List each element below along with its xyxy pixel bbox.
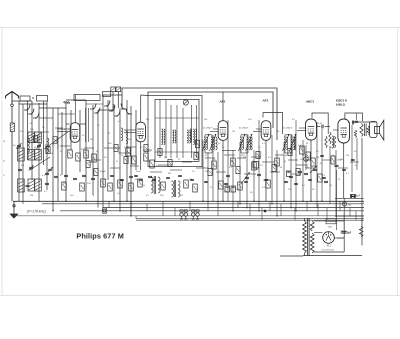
capacitor C43 [152,179,156,180]
svg-text:2k: 2k [306,143,308,145]
wire heater rail 6b [136,219,364,221]
oscillator trimmer box [102,92,110,97]
node junction 25 [52,210,54,212]
label V2 values [124,147,151,187]
resistor R18 [275,158,280,166]
jack J5 [196,210,199,219]
svg-text:41-490pF: 41-490pF [203,127,213,130]
svg-text:8µF: 8µF [356,195,361,198]
wire supply rail 4 [60,210,364,212]
capacitor C42 [134,175,138,176]
capacitor C23 [324,181,328,182]
wire rail link 17 [326,208,328,221]
wire mid section vertical 4 [119,108,121,211]
wire link 10 [224,154,235,156]
wire IF section vertical 8 [246,135,248,208]
capacitor C48 electrolytic [287,171,292,177]
wire IF section vertical 6 [232,150,234,211]
capacitor C10 [129,176,133,177]
resistor R58 [256,152,260,159]
tube V2 ACH1 [136,122,146,142]
resistor R54 [168,160,172,167]
wire output section vertical 5 [329,146,331,204]
resistor R19 [219,181,224,189]
wire stub y118 b [58,113,75,115]
resistor R23 [333,136,335,148]
resistor R25 [300,146,305,154]
wire left section vertical 2 [22,104,24,204]
wire V1 grid pair [57,129,71,132]
wire link 26 [338,167,348,169]
wire trimmer drop 2 [117,92,119,108]
jack J3 [184,210,187,219]
wire left stub a [12,100,32,102]
wire output section vertical 4 [321,129,323,201]
resistor R21 [266,180,271,188]
wire link 12 [251,156,261,158]
capacitor C54 [320,155,324,156]
dial lamp symbol [351,195,356,199]
wire box vertical 3 [170,105,172,158]
output transformer T2 core [365,124,367,137]
resistor R34 [129,183,134,191]
shield box IF1 outer [148,96,202,167]
capacitor C11 [139,179,143,180]
resistor R16 [231,158,236,166]
tube V5 ABC1 [306,119,317,140]
wire output section vertical 1 [302,140,304,201]
wire pair mid [86,108,89,142]
wire link 14 [275,154,284,156]
micro labels row 6 [20,127,131,147]
node main junction [264,210,267,213]
resistor R15 [212,161,217,169]
wire antenna lead [11,107,13,123]
svg-text:50k: 50k [236,189,239,191]
wire tap diagonal 2 [30,157,50,170]
resistor R64 [94,169,98,176]
node junction 8 [283,201,285,203]
resistor R29 150 [342,202,352,207]
wire link 28 [60,145,70,147]
coil L6a band coil [28,132,35,143]
wire rail link 19 [349,208,351,216]
wire IF section vertical 5 [227,120,229,201]
svg-text:2k: 2k [280,167,282,169]
node junction 10 [310,201,312,203]
resistor R13 [144,153,149,161]
wire V2 anode up [140,95,142,122]
trimmer P5 [48,167,53,172]
wire output section vertical 3 [316,122,318,208]
svg-text:2M: 2M [90,139,93,141]
wire psu hline 2 [335,215,364,217]
wire rail link 4 [162,201,164,216]
svg-text:2M: 2M [146,119,149,121]
coil L3 [47,138,49,152]
capacitor C7 [73,178,77,179]
resistor R36 [161,182,166,190]
wire V1 grid stub [66,123,70,125]
capacitor C25 8uF [341,231,352,234]
wire mid section vertical 2 [107,100,109,180]
svg-text:2M: 2M [230,161,233,163]
svg-text:AF2: AF2 [262,99,269,103]
svg-text:AF3: AF3 [219,100,226,104]
micro labels row 2 [16,147,160,167]
resistor R8 [76,153,81,161]
resistor R30 field coil [359,226,363,237]
svg-text:(ABL1): (ABL1) [336,103,345,107]
resistor R10 [92,154,97,162]
resistor R26 [306,152,311,160]
switch S2 contact 2 [109,106,115,112]
wire link 27 [350,161,359,163]
node junction 24 [119,210,121,212]
capacitor C52 [294,183,298,184]
capacitor C14 [226,175,230,176]
coil L2 [28,138,30,152]
power transformer T1 primary [303,218,307,256]
wire stub y112 a [86,103,103,105]
wire link 19 [150,171,162,173]
scan page bottom edge [0,295,400,297]
scan page top edge [0,27,400,29]
node junction 3 [113,201,115,203]
antenna [6,92,19,105]
coil L13 [251,137,253,150]
wire box vertical 1 [159,99,161,158]
wire V6 anode bracket [345,113,363,121]
node junction 21 [232,210,234,212]
resistor R52 [144,145,148,152]
svg-text:25k: 25k [346,155,349,157]
switch S2 contact 4 [121,104,127,110]
tuning gang section A [20,96,30,101]
capacitor C52 [342,169,346,170]
wire rail link 5 [174,208,176,216]
svg-text:Philips 677 M: Philips 677 M [76,231,124,240]
capacitor C6 [64,175,68,176]
wire link 11 [237,157,246,159]
wire box vertical 5 [182,108,184,158]
svg-text:50k: 50k [302,155,305,157]
micro labels row 7 [202,151,357,171]
ground [10,201,17,218]
wire IF section vertical 12 [276,150,278,216]
svg-text:ABC1: ABC1 [305,100,314,104]
coil L7b band coil [35,150,42,161]
node junction 17 [239,203,241,205]
svg-text:AZ 1: AZ 1 [327,244,333,247]
scan page left edge [1,28,3,296]
padding trimmer P2 [116,87,121,92]
svg-text:50k: 50k [204,119,207,121]
coil L15 [121,128,123,141]
wire V1 section vertical 2 [70,110,72,150]
wire rail link 2 [130,201,132,216]
wire supply rail 2 [42,203,364,205]
wire left stub b [19,103,47,105]
switch S2 contact 1 [104,101,110,107]
wire left stub e [39,107,66,109]
wire heater rail 6a [136,218,364,220]
switch S2 contact 5 [126,109,132,115]
wire IF section vertical 14 [290,135,292,208]
svg-text:(F=178 kHz): (F=178 kHz) [27,210,46,214]
fuse F1 [326,219,336,229]
wire V3 bottom [222,141,224,202]
coil L11 [190,129,192,142]
svg-text:2M: 2M [21,165,24,167]
wire rail link 10 [249,204,251,216]
wire V1 section vertical 1 [65,104,67,201]
wire box crossbar 1 [155,151,199,153]
capacitor C53 [308,179,312,180]
svg-text:1M: 1M [288,189,291,191]
coil L9a band coil [28,179,35,191]
resistor R38 [193,184,198,192]
wire link 7 [182,161,192,163]
capacitor C40 [110,175,114,176]
wire V6 bracket tap [355,113,357,120]
capacitor C54 [322,177,326,178]
resistor R51 [124,157,128,164]
mains lead [280,255,303,257]
wire psu vert a [336,170,338,230]
svg-text:1k: 1k [284,161,286,163]
tube V6 ABL1 [338,119,350,143]
micro labels row 8 [60,171,196,177]
wire mid section vertical 5 [126,100,128,201]
svg-text:1M: 1M [232,131,235,133]
coil L5 IF secondary [187,130,191,143]
capacitor C3 [18,169,22,170]
wire link 17 [110,167,120,169]
micro labels row 1 [97,119,296,127]
resistor R44 [80,183,85,191]
svg-text:2k: 2k [82,135,84,137]
resistor R37 [184,180,189,188]
svg-text:490pF: 490pF [100,171,106,173]
node junction 1 [65,201,67,203]
wire V1 section vertical 5 [92,105,94,195]
svg-text:50k: 50k [22,191,25,193]
wire IF section vertical 10 [258,120,260,211]
wire link 30 [55,127,63,129]
wire psu bottom out [303,255,362,257]
svg-text:1M: 1M [316,157,319,159]
wire output section vertical 2 [305,145,307,170]
resistor R47 1M [331,156,335,164]
wire link 24 [306,167,316,169]
pickup jack J1 [103,208,107,213]
switch S3 contact 2 [94,108,100,114]
svg-text:41-490pF: 41-490pF [239,127,249,130]
wire IF section vertical 9 [253,150,255,201]
micro labels row 9 [218,131,308,145]
resistor R61 [296,169,300,176]
coil L9c band coil [18,179,25,192]
wire output long vertical [361,138,363,246]
capacitor C30 top [355,121,359,122]
svg-text:1M: 1M [30,195,33,197]
potentiometer P6 arrow [241,173,250,185]
wire IF section vertical 11 [271,135,273,204]
node junction 12 [130,215,132,217]
wire link 4 [143,149,152,151]
capacitor C47 [204,181,208,182]
tube V3 AF3 [218,121,228,141]
wire V3 cathode stub [222,150,236,152]
tube V1 AK2 [70,123,80,143]
node junction 4 [126,201,128,203]
capacitor C18 coupling [317,123,331,129]
output transformer T2 primary [360,124,363,137]
wire psu tube out [335,237,345,239]
capacitor C29 [26,185,30,186]
wire V1 section vertical 4 [85,100,87,201]
wire output section vertical 7 [351,125,353,192]
wire output section vertical 8 [356,138,358,170]
svg-text:2k: 2k [116,161,118,163]
wire supply rail 3 [103,207,364,209]
coil texture box right [193,129,196,145]
resistor R62 [46,147,50,154]
wire rail link 15 [306,201,308,211]
wire left section vertical 5 [38,103,40,201]
wire psu hline 1 [335,197,364,199]
resistor R53 [158,149,162,156]
capacitor C12 [148,176,152,177]
capacitor C9 [91,178,95,179]
wire V5 grid pair [297,128,306,131]
wire link 13 [262,161,274,163]
scan page right edge [397,28,399,296]
AF transformer T4 [172,180,181,197]
label IF values [205,157,290,194]
wire link 25 [322,159,331,161]
wire rail link 13 [280,204,282,216]
resistor R55 [194,153,198,160]
svg-text:2k: 2k [210,187,212,189]
capacitor C53 [351,159,355,160]
coil L8 band coil [18,148,25,161]
wire IF section vertical 3 [212,135,214,201]
wire psu mid link [314,232,323,234]
wire mid section vertical 1 [102,95,104,208]
switch S1 contact 3 [33,113,39,119]
band switch housing [74,95,100,101]
coil texture box left [162,129,166,145]
capacitor C41 [120,179,124,180]
capacitor C8 [82,175,86,176]
wire rail link 18 [339,201,341,211]
resistor R43 [62,182,67,190]
wire IF section vertical 15 [295,120,297,211]
wire link 9 [205,157,215,159]
svg-text:1k: 1k [330,147,332,149]
wire antenna to ground rail [11,132,13,202]
node junction 14 [335,215,337,217]
label right col values [338,165,358,181]
wire mid section vertical 7 [135,110,137,170]
node junction 2 [85,201,87,203]
svg-text:25k: 25k [300,159,303,161]
wire V4 anode bracket [263,113,283,134]
wire transformer top [352,121,377,123]
node junction 22 [258,210,260,212]
wire rail link 6 [189,201,191,211]
wire psu vert c [343,213,345,252]
node junction 5 [202,201,204,203]
coil L10 [126,131,128,144]
wire mid section vertical 3 [113,104,115,201]
wire V1 section vertical 3 [79,110,81,172]
wire mid stub a [98,109,114,111]
wire V1 top stub [66,99,86,101]
wire link 20 [216,171,226,173]
capacitor C5a [54,176,58,177]
capacitor C4 [45,173,49,174]
trimmer P4 [29,165,34,170]
wire mid stub b [103,94,122,96]
capacitor C16 [257,174,261,175]
svg-text:2M: 2M [168,173,171,175]
capacitor C50 [264,179,268,180]
resistor R56 [208,169,212,176]
wire psu top loop [314,220,344,222]
wire link 23 [292,173,301,175]
node junction 19 [246,207,248,209]
wire IF section vertical 2 [207,152,209,204]
svg-text:1M: 1M [148,161,151,163]
node junction 9 [302,201,304,203]
wire left section vertical 6 [43,101,45,165]
svg-text:AK1: AK1 [64,101,71,105]
wire V6 grid stub [333,129,339,131]
wire left section vertical 8 [52,108,54,211]
wire link 5 [158,164,172,166]
micro labels row 5 [22,191,95,197]
wire link 22 [270,171,280,173]
wire psu bottom stub [337,237,344,239]
wire tap diagonal 1 [44,132,68,149]
wire rail link 3 [146,204,148,211]
coil L16 output choke [332,136,334,148]
wire V4 bottom [265,141,267,202]
wire psu bottom loop [314,251,344,253]
svg-text:3000: 3000 [58,143,60,149]
node junction 16 [361,220,363,222]
tuning gang section B [37,96,48,102]
resistor R24 [325,136,327,148]
wire trimmer drop 1 [112,92,114,110]
resistor R12 [132,156,137,164]
wire top bus outer [122,88,277,140]
micro labels row 4 [146,185,332,197]
wire link 3 [126,146,136,148]
coil L6b band coil [35,132,42,143]
wire left section vertical 7 [46,101,48,190]
power transformer T1 secondary heater [310,233,314,253]
resistor R17 [252,162,257,170]
wire V1 anode stub [81,123,87,125]
coil L1 antenna choke [10,123,14,132]
wire left section vertical 10 [61,112,63,175]
IF transformer IF2 [203,127,217,154]
node gang link [32,97,34,99]
